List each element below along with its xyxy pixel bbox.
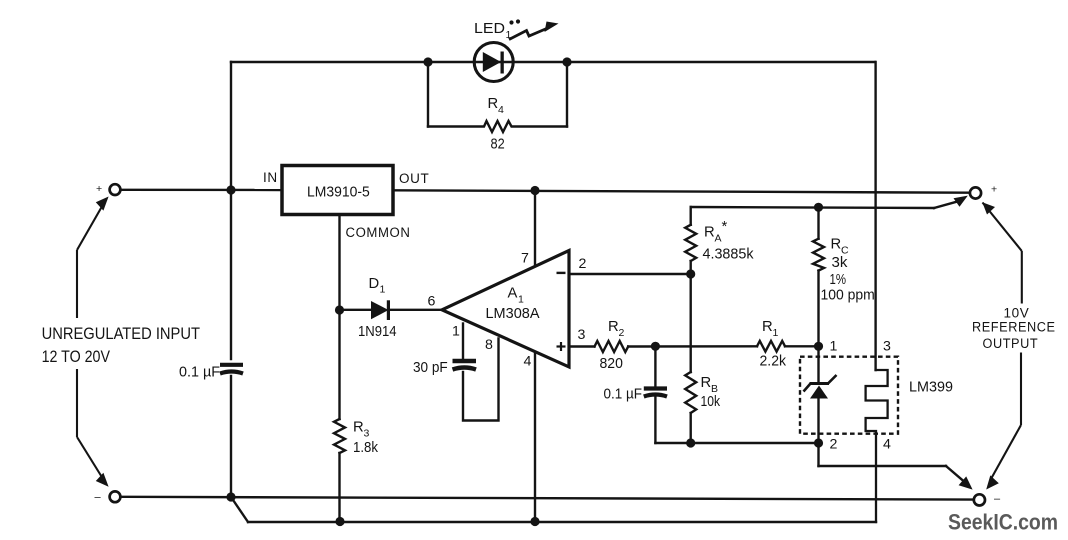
wire RC top lead [817,207,819,239]
svg-text:2: 2 [619,327,625,339]
svg-text:2: 2 [579,256,587,272]
svg-text:3: 3 [364,428,370,440]
wire op-amp pin 1 upper [462,324,464,359]
svg-text:UNREGULATED INPUT: UNREGULATED INPUT [42,325,200,343]
node pin2-RA junction [686,269,695,278]
capacitor C input 0.1uF plates [220,365,243,374]
svg-text:–: – [95,492,102,504]
svg-text:10k: 10k [701,394,721,410]
wire RB bottom lead [690,413,692,443]
svg-text:3k: 3k [832,255,848,271]
svg-text:+: + [991,184,997,196]
node minus input junction [226,492,235,501]
svg-text:D: D [369,276,380,292]
wire op-amp pin 2 [569,273,691,275]
regulator U1 LM3910-5 box [282,166,393,215]
resistor RC [813,239,824,271]
svg-text:R: R [488,96,499,112]
output bracket pointers [983,203,1022,479]
wire diagonal to minus input rail [231,497,248,522]
wire arrow into minus terminal [946,466,967,484]
wire RA bottom to RB top [690,261,692,372]
svg-text:1: 1 [518,294,524,306]
capacitor C2 0.1uF plates [644,389,667,397]
op-amp plus sign [557,342,566,351]
wire bottom connector 443 [655,442,818,444]
svg-text:COMMON: COMMON [346,225,411,240]
svg-text:0.1 µF: 0.1 µF [179,365,220,381]
op-amp A1 LM308A [442,251,569,367]
svg-text:4: 4 [524,354,532,370]
svg-text:1.8k: 1.8k [353,440,379,456]
svg-text:A: A [508,286,518,302]
diode D1 [371,301,389,319]
svg-text:1: 1 [830,339,838,355]
input bracket arrows [77,199,107,485]
op-amp minus sign [557,272,566,274]
wire top rail [231,61,875,63]
svg-text:820: 820 [600,356,623,372]
LED1 asterisks [509,20,513,24]
svg-text:+: + [96,183,102,195]
wire left input vertical upper [230,62,232,359]
terminal plus output [970,187,981,198]
svg-text:4: 4 [498,104,504,116]
wire op-amp pin 7 [534,191,536,265]
wire R2 to R1 [628,345,757,348]
svg-text:R: R [353,420,364,436]
svg-text:R: R [704,225,715,241]
node LED left junction [423,57,432,66]
node RB bottom junction [686,438,695,447]
svg-text:4: 4 [883,437,891,453]
svg-text:7: 7 [521,251,529,267]
node RC top junction [814,203,823,212]
wire D1 anode lead [340,309,372,311]
wire cap2 bottom lead [654,397,656,443]
svg-text:30 pF: 30 pF [413,360,448,376]
wire R1 to zener pin 1 [785,345,819,347]
node COMMON-D1-R3 junction [335,305,344,314]
resistor R4 [428,121,567,132]
heater of LM399 (pins 3-4 meander) [866,370,888,522]
resistor RA [685,225,696,261]
svg-text:1N914: 1N914 [358,324,397,340]
wire zener pin2 run right [819,465,947,467]
capacitor 30pF plates [453,361,477,370]
node R3 bottom junction [335,517,344,526]
wire zener anode lead [817,399,819,466]
svg-text:2.2k: 2.2k [760,354,787,370]
wire LED branch left drop [427,62,429,127]
svg-text:3: 3 [578,327,586,343]
svg-text:OUTPUT: OUTPUT [983,336,1039,351]
zener diode of LM399 [804,375,837,399]
svg-text:10V: 10V [1004,306,1030,321]
svg-text:R: R [831,237,842,253]
wire cap2 top lead [654,346,656,386]
svg-text:12 TO 20V: 12 TO 20V [42,348,111,366]
svg-text:8: 8 [485,337,493,353]
wire op-amp pin 1 lower and U to pin 8 [463,339,499,421]
svg-text:LM3910-5: LM3910-5 [307,185,370,201]
svg-text:6: 6 [428,294,436,310]
resistor R3 [334,419,345,453]
LM399 dashed box [800,357,898,434]
node pin7 on OUT rail [530,186,539,195]
svg-text:0.1 µF: 0.1 µF [604,387,643,403]
svg-text:R: R [762,319,773,335]
wire op-amp pin 4 [534,353,536,522]
node pin4 bottom junction [530,517,539,526]
wire minus input rail [121,497,974,500]
node zener pin 2 junction [814,438,823,447]
svg-text:82: 82 [491,137,505,153]
resistor R2 [595,341,629,352]
wire D1 cathode lead [390,309,442,311]
node input IN junction [226,185,235,194]
terminal minus input [110,491,121,502]
svg-text:4.3885k: 4.3885k [703,247,755,263]
svg-text:1: 1 [773,327,779,339]
terminal minus output [974,494,985,505]
wire COMMON drop [338,215,340,311]
svg-text:–: – [994,493,1001,505]
wire R3 top lead [338,310,340,419]
wire plus input to IN [121,189,283,192]
svg-text:LM399: LM399 [909,380,953,396]
resistor RB [685,372,696,413]
wire rail to plus output [691,207,934,208]
svg-text:100 ppm: 100 ppm [821,288,875,304]
wire RC bottom to pin1 [817,271,819,347]
LED1 light arrow [509,28,549,40]
svg-text:R: R [701,375,712,391]
wire right side vertical (heater feed) [874,62,876,370]
LED1 circle [474,43,513,82]
LED1 cathode bar [501,52,504,74]
svg-text:R: R [608,319,619,335]
wire zener cathode lead [817,346,819,381]
svg-text:LM308A: LM308A [486,306,540,322]
svg-text:OUT: OUT [399,171,429,186]
wire RA top lead [690,207,692,225]
terminal plus input [110,184,121,195]
svg-text:1%: 1% [830,272,847,288]
svg-text:1: 1 [380,284,386,296]
wire arrow into plus terminal [934,201,961,209]
LED1 diode triangle [483,52,501,72]
svg-text:2: 2 [830,437,838,453]
wire R3 bottom lead [338,453,340,522]
svg-text:IN: IN [263,170,278,185]
svg-text:A: A [715,233,722,245]
svg-text:3: 3 [883,339,891,355]
node zener pin 1 junction [814,342,823,351]
svg-text:REFERENCE: REFERENCE [972,320,1056,335]
svg-text:1: 1 [452,324,460,340]
wire OUT rail to plus terminal [393,190,970,192]
wire left input vertical lower [230,376,232,497]
wire LED branch right drop [566,62,568,127]
arrow minus output wire head [959,476,973,489]
svg-text:LED: LED [474,21,505,37]
node R2 output junction [651,342,660,351]
node LED right junction [562,57,571,66]
resistor R1 [757,341,785,352]
wire bottom heater rail [248,521,876,523]
svg-text:*: * [722,219,728,235]
arrow plus output rail head [954,196,968,207]
svg-text:SeekIC.com: SeekIC.com [948,510,1058,535]
wire op-amp pin 3 lead [569,345,595,347]
